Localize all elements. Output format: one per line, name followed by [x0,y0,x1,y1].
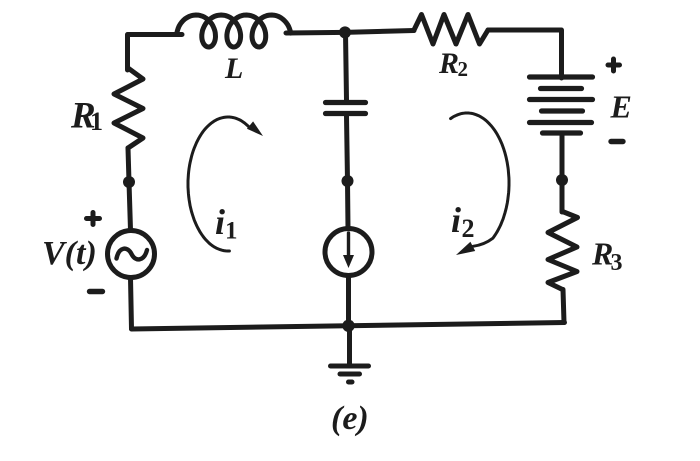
node top-middle junction [339,26,351,38]
node right junction [556,174,568,186]
wire top middle [286,31,414,34]
wire middle down to capacitor [346,32,347,100]
wire top-left corner [128,35,183,71]
resistor R3 [548,212,578,290]
battery E plate 4 short [542,108,583,113]
wire R2 to top-right corner down to battery [488,30,562,78]
wire battery to R3 [560,133,565,212]
wire capacitor to current source [347,116,349,229]
label plus of E [608,59,620,71]
battery E plate 3 long [530,97,593,102]
wire current source to bottom node [346,276,351,326]
svg-text:1: 1 [225,218,238,245]
wire bottom-left up to source [131,278,132,329]
ground stem [347,326,352,364]
capacitor bottom plate [326,111,366,116]
svg-text:L: L [224,52,243,85]
battery E plate 6 short [543,130,581,135]
wire source top to R1 [128,148,131,230]
inductor L [177,15,291,47]
svg-text:(e): (e) [331,400,369,437]
battery E plate 1 long [530,74,593,79]
svg-text:E: E [610,89,632,125]
resistor R2 [414,15,488,45]
ground bar 1 [331,364,369,369]
wire R3 to bottom-right corner [563,290,564,323]
battery E plate 5 long [530,120,592,125]
mesh current arrow i1 [188,117,249,251]
current source arrow [347,233,350,258]
sine symbol inside V(t) [117,249,148,260]
svg-text:2: 2 [458,57,469,81]
capacitor top plate [326,100,366,105]
wire bottom [132,323,565,330]
svg-text:V(t): V(t) [42,235,97,272]
label plus of V(t) [87,213,100,225]
label minus of V(t) [90,289,103,294]
svg-text:i: i [451,200,461,240]
battery E plate 2 short [541,86,582,91]
node bottom junction [342,320,354,332]
node middle junction [342,175,354,187]
source V(t) circle [108,231,155,278]
ground bar 2 [340,372,360,377]
svg-text:2: 2 [462,214,475,243]
svg-text:3: 3 [611,250,623,276]
ground bar 3 [349,380,353,385]
current source circle [325,229,372,276]
resistor R1 [114,68,143,148]
node left junction [123,176,135,188]
label minus of E [611,139,623,144]
mesh current arrow i2 [451,113,509,246]
svg-text:i: i [215,202,225,242]
svg-text:1: 1 [90,107,103,136]
svg-text:R: R [438,47,459,80]
